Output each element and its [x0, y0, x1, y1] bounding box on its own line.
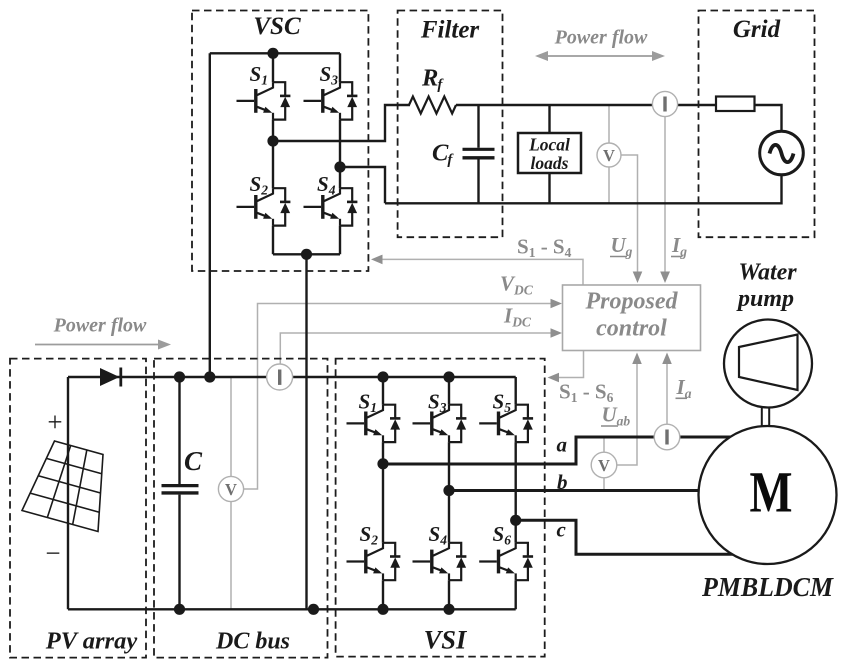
wire phase b — [449, 489, 704, 492]
transistor S5 (VSI) — [479, 405, 533, 442]
transistor S4 (VSI) — [413, 543, 467, 580]
svg-text:c: c — [557, 518, 567, 542]
svg-text:VSC: VSC — [253, 13, 301, 40]
svg-text:M: M — [750, 460, 793, 525]
node phase b — [443, 485, 454, 496]
arrowhead I_DC into control — [551, 328, 563, 338]
svg-text:control: control — [596, 316, 667, 342]
svg-text:V: V — [598, 456, 610, 475]
transistor S2 (VSC) — [237, 188, 291, 225]
node VSC bottom — [301, 249, 312, 260]
node DC+ vsc — [204, 371, 215, 382]
meter I (dc bus) — [267, 364, 293, 390]
wire Ia sense — [666, 358, 668, 424]
svg-text:PMBLDCM: PMBLDCM — [701, 571, 834, 602]
box VSI — [336, 359, 545, 657]
svg-text:Proposed: Proposed — [585, 289, 679, 315]
svg-text:Power flow: Power flow — [554, 27, 648, 49]
transistor S6 (VSI) — [479, 543, 533, 580]
wire phase c — [516, 520, 740, 554]
wire Ug sense — [609, 104, 638, 278]
node VSC mid right — [334, 161, 345, 172]
box Grid — [699, 11, 815, 238]
wire VSC negative to DC- — [305, 254, 307, 609]
svg-text:V: V — [225, 480, 237, 499]
wire VSC ac out 1 to filter — [273, 105, 410, 141]
svg-text:b: b — [557, 470, 568, 494]
meter V (grid) — [597, 143, 621, 167]
wire phase a — [383, 437, 740, 464]
wire Ig sense — [664, 117, 666, 278]
arrowhead S1-S6 into VSI — [548, 373, 560, 383]
svg-text:S1 - S6: S1 - S6 — [559, 380, 614, 406]
box DC bus — [154, 359, 328, 658]
wire VSC ac out 2 to bottom — [340, 167, 385, 203]
grid AC source — [760, 131, 804, 175]
capacitor Cf leads — [477, 105, 479, 203]
wire DC- bottom bus — [68, 608, 516, 610]
node phase c — [510, 515, 521, 526]
svg-text:Local: Local — [528, 135, 570, 155]
node VSI bottom leg2 — [443, 604, 454, 615]
node VSI bottom leg1 — [377, 604, 388, 615]
node phase a — [377, 458, 388, 469]
svg-text:V: V — [603, 146, 615, 165]
svg-text:loads: loads — [531, 153, 569, 173]
motor M circle — [699, 426, 837, 564]
wire VSC bottom rail — [273, 253, 340, 255]
PV array panel — [22, 441, 103, 532]
wire VSI leg1 — [382, 377, 384, 609]
wire I_DC sense: meter I to control — [280, 333, 556, 364]
wire S1-S6 gate signal — [553, 351, 584, 378]
transistor S2 (VSI) — [347, 543, 401, 580]
wire VSI leg3 — [515, 377, 517, 609]
wire local loads taps — [548, 105, 550, 203]
power flow arrow top (double) — [544, 55, 656, 57]
wire VSC top rail — [210, 52, 340, 54]
wire VSC right leg — [339, 53, 341, 254]
transistor S4 (VSC) — [304, 188, 358, 225]
wire V_DC sense: meter V to control — [231, 304, 557, 610]
svg-text:a: a — [557, 433, 568, 457]
diode D1 (PV blocking) — [100, 368, 120, 386]
svg-text:+: + — [47, 407, 62, 437]
svg-text:pump: pump — [736, 286, 794, 312]
node DC- vsc — [308, 604, 319, 615]
wire VSC left leg — [272, 53, 274, 254]
arrowhead Uab into control — [632, 353, 642, 365]
transistor S1 (VSC) — [237, 82, 291, 119]
capacitor Cf plates — [463, 148, 495, 151]
svg-text:VSI: VSI — [424, 625, 468, 655]
resistor Rf — [409, 97, 456, 114]
shaft pump-motor — [762, 405, 769, 428]
capacitor C leads — [178, 377, 180, 609]
svg-text:C: C — [184, 446, 203, 476]
node VSI top leg2 — [443, 371, 454, 382]
wire S1-S4 gate signal — [377, 259, 584, 285]
capacitor C plates — [162, 484, 199, 487]
meter I (grid) — [652, 91, 677, 116]
wire filter/grid bottom return — [385, 175, 782, 204]
local loads box — [518, 133, 581, 173]
box Filter — [398, 11, 503, 238]
transistor S3 (VSC) — [304, 82, 358, 119]
node VSI top leg1 — [377, 371, 388, 382]
box PV array — [10, 359, 146, 658]
meter V (motor Uab) — [591, 452, 617, 478]
node VSC mid left — [267, 135, 278, 146]
meter V (dc bus) — [218, 476, 243, 501]
arrowhead S1-S4 into VSC — [371, 255, 383, 265]
wire filter top to grid — [456, 105, 782, 131]
arrowhead V_DC into control — [551, 299, 563, 309]
proposed control box — [563, 285, 701, 351]
svg-text:Power flow: Power flow — [53, 315, 147, 337]
svg-text:Water: Water — [738, 260, 797, 286]
arrowhead Ug into control — [633, 272, 643, 284]
svg-text:PV array: PV array — [45, 628, 138, 655]
wire DC+ top bus — [68, 376, 516, 378]
wire PV left loop — [67, 377, 69, 609]
svg-text:S1 - S4: S1 - S4 — [517, 235, 572, 261]
svg-text:DC bus: DC bus — [215, 629, 290, 655]
wire VSI leg2 — [448, 377, 450, 609]
transistor S3 (VSI) — [413, 405, 467, 442]
water pump circle — [724, 320, 812, 408]
arrowhead Ig into control — [660, 272, 670, 284]
svg-text:Filter: Filter — [420, 17, 480, 44]
svg-text:−: − — [45, 538, 60, 568]
transistor S1 (VSI) — [347, 405, 401, 442]
node DC+ capacitor — [174, 371, 185, 382]
svg-text:Grid: Grid — [733, 16, 781, 43]
node DC- capacitor — [174, 604, 185, 615]
node VSC top — [267, 48, 278, 59]
power flow arrow left — [35, 344, 162, 346]
grid resistor (box) — [716, 97, 755, 112]
wire VSC left rail down — [209, 53, 211, 377]
wire Uab sense — [604, 358, 637, 491]
arrowhead Ia into control — [662, 353, 672, 365]
box VSC — [192, 11, 368, 272]
meter I (motor Ia) — [654, 424, 680, 450]
